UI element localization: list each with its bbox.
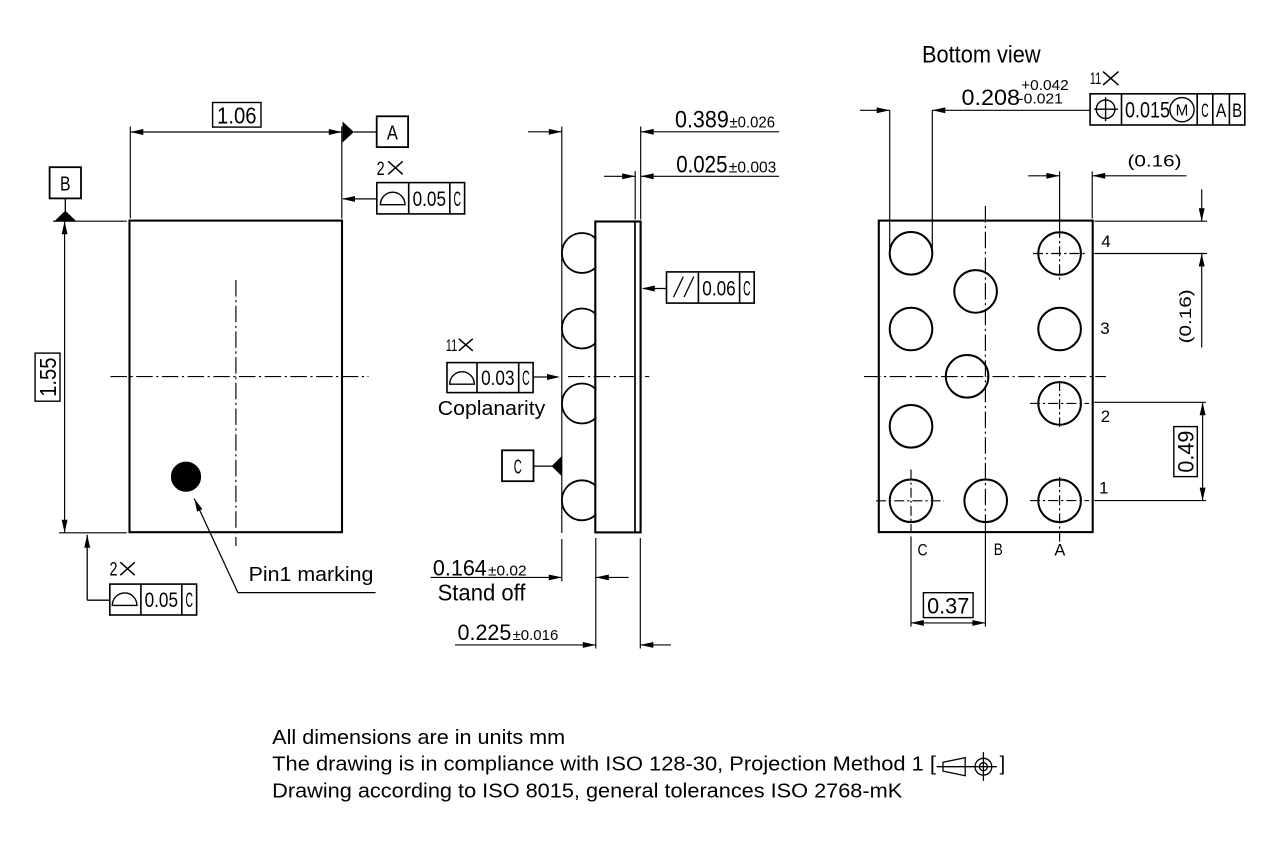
- svg-text:0.015: 0.015: [1125, 97, 1170, 122]
- side view inner layer line: [634, 222, 636, 533]
- dimension 1.06 boxed value: [213, 103, 261, 128]
- svg-text:1.06: 1.06: [217, 103, 257, 129]
- dimension 0.225 line with arrows: [455, 644, 596, 646]
- row extension lines right side: [1095, 220, 1208, 222]
- svg-text:0.225: 0.225: [458, 620, 512, 645]
- bottom view body outline: [879, 221, 1093, 532]
- svg-text:C: C: [1201, 101, 1209, 122]
- svg-text:±0.02: ±0.02: [488, 562, 527, 579]
- dimension 0.025 line with arrows: [604, 175, 635, 177]
- svg-text:B: B: [60, 174, 71, 196]
- svg-text:0.37: 0.37: [927, 593, 969, 618]
- svg-text:A: A: [387, 123, 399, 145]
- svg-text:±0.003: ±0.003: [729, 160, 777, 177]
- leader arrow from 0.05 frame to right edge: [343, 198, 377, 200]
- svg-text:2: 2: [377, 159, 385, 180]
- svg-text:A: A: [1216, 101, 1227, 122]
- dimension 0.37 line with arrows: [911, 622, 986, 624]
- top view horizontal centerline: [111, 376, 369, 378]
- ball A4 center marks: [1059, 171, 1061, 228]
- svg-text:C: C: [514, 457, 522, 479]
- dimension (0.16) vertical line with arrows: [1201, 189, 1203, 221]
- svg-text:0.49: 0.49: [1173, 431, 1198, 473]
- dimension 1.55 boxed value: [35, 353, 60, 401]
- ball A2 center marks: [1059, 381, 1061, 427]
- svg-text:11: 11: [446, 336, 458, 355]
- svg-text:0.05: 0.05: [413, 188, 446, 211]
- position tolerance frame (0.015 M C A B): [1090, 94, 1245, 125]
- svg-text:C: C: [918, 541, 928, 560]
- ball C1 center marks: [910, 470, 912, 534]
- side view body outline: [595, 222, 640, 533]
- svg-text:Bottom view: Bottom view: [922, 42, 1041, 69]
- svg-text:11: 11: [1090, 69, 1102, 88]
- svg-text:0.06: 0.06: [702, 277, 735, 300]
- dimension 0.164 line with arrows: [431, 576, 562, 578]
- svg-text:1.55: 1.55: [35, 357, 61, 397]
- dimension 1.55 line with arrows: [64, 221, 66, 533]
- pin1 leader line: [194, 499, 238, 593]
- svg-text:Pin1 marking: Pin1 marking: [249, 563, 374, 586]
- dimension 0.37 boxed value: [923, 593, 973, 618]
- datum C leader: [534, 465, 553, 467]
- datum B leader: [64, 198, 66, 211]
- datum A box: [377, 116, 408, 147]
- dimension (0.16) horizontal line with arrows: [1091, 171, 1093, 218]
- dimension 1.06 line with arrows: [130, 131, 341, 133]
- svg-text:4: 4: [1101, 232, 1110, 251]
- svg-text:Drawing according to ISO 8015,: Drawing according to ISO 8015, general t…: [272, 781, 903, 803]
- dimension 1.55 extension lines: [53, 220, 127, 222]
- top view vertical centerline: [235, 280, 237, 546]
- first angle projection symbol: [937, 766, 997, 768]
- extension line from ball C1 down to 0.37 dimension: [910, 537, 912, 627]
- svg-text:C: C: [743, 277, 751, 300]
- svg-text:0.025: 0.025: [676, 152, 727, 179]
- svg-text:0.03: 0.03: [481, 367, 514, 390]
- svg-text:A: A: [1054, 541, 1066, 560]
- svg-text:B: B: [1232, 101, 1242, 122]
- top view body outline: [130, 221, 343, 533]
- parallelism leader arrow: [643, 288, 667, 290]
- svg-text:(0.16): (0.16): [1128, 151, 1182, 170]
- svg-text:M: M: [1176, 102, 1189, 119]
- svg-text:]: ]: [1000, 753, 1006, 775]
- datum C box: [502, 450, 534, 481]
- dimension 0.49 boxed value: [1174, 427, 1198, 477]
- ball A1 center marks: [1059, 477, 1061, 545]
- leader from bottom 0.05 frame to bottom edge: [87, 599, 110, 601]
- svg-text:C: C: [522, 367, 530, 390]
- dimension 0.208 extension lines (ball tangents): [889, 110, 891, 252]
- bottom view balls column B: [954, 270, 997, 313]
- dimension 1.06 extension lines: [129, 127, 131, 219]
- svg-text:The drawing is in compliance w: The drawing is in compliance with ISO 12…: [272, 753, 936, 775]
- dimension 0.025 extension line: [634, 171, 636, 220]
- stand off extension lines below: [595, 538, 597, 649]
- datum C triangle: [552, 456, 562, 476]
- side view ball seating plane line: [561, 127, 563, 534]
- datum A leader: [354, 131, 377, 133]
- datum B box: [50, 167, 81, 198]
- bottom view balls column A: [1038, 232, 1081, 275]
- svg-text:B: B: [994, 540, 1003, 559]
- bottom view balls column C: [890, 232, 933, 275]
- svg-text:(0.16): (0.16): [1176, 289, 1195, 343]
- bottom view horizontal centerline: [864, 376, 1106, 378]
- bottom view vertical centerline: [984, 206, 986, 533]
- svg-text:-0.021: -0.021: [1018, 91, 1063, 107]
- datum B triangle: [54, 211, 76, 222]
- svg-text:0.208: 0.208: [962, 85, 1021, 110]
- dimension 0.389 extension line: [640, 127, 642, 220]
- svg-text:Stand off: Stand off: [438, 580, 526, 606]
- side view horizontal centerline: [568, 376, 649, 378]
- svg-text:2: 2: [110, 560, 118, 581]
- svg-text:1: 1: [1099, 479, 1108, 498]
- svg-text:0.05: 0.05: [145, 589, 178, 612]
- profile tolerance frame 2x top (0.05 C): [377, 183, 465, 214]
- coplanarity tolerance frame (0.03 C): [447, 363, 533, 393]
- datum A triangle: [343, 122, 354, 143]
- svg-text:All dimensions are in units mm: All dimensions are in units mm: [272, 727, 565, 749]
- svg-text:C: C: [185, 589, 193, 612]
- svg-text:0.164: 0.164: [433, 555, 487, 580]
- parallelism tolerance frame (0.06 C): [667, 272, 755, 303]
- dimension 0.208 line with arrows: [860, 109, 890, 111]
- pin1 marking dot: [172, 462, 201, 491]
- extension of centerline below to 0.37 dimension: [984, 533, 986, 627]
- svg-text:Coplanarity: Coplanarity: [438, 398, 546, 420]
- dimension 0.49 line with arrows: [1202, 402, 1204, 500]
- svg-text:2: 2: [1101, 407, 1110, 426]
- svg-text:C: C: [453, 188, 461, 211]
- svg-text:0.389: 0.389: [675, 107, 729, 134]
- svg-text:3: 3: [1100, 319, 1109, 338]
- dimension 0.389 line with arrows: [528, 131, 562, 133]
- svg-text:±0.026: ±0.026: [730, 115, 776, 132]
- coplanarity leader arrow: [533, 376, 557, 378]
- profile tolerance frame 2x bottom (0.05 C): [110, 584, 197, 615]
- svg-text:±0.016: ±0.016: [513, 627, 559, 644]
